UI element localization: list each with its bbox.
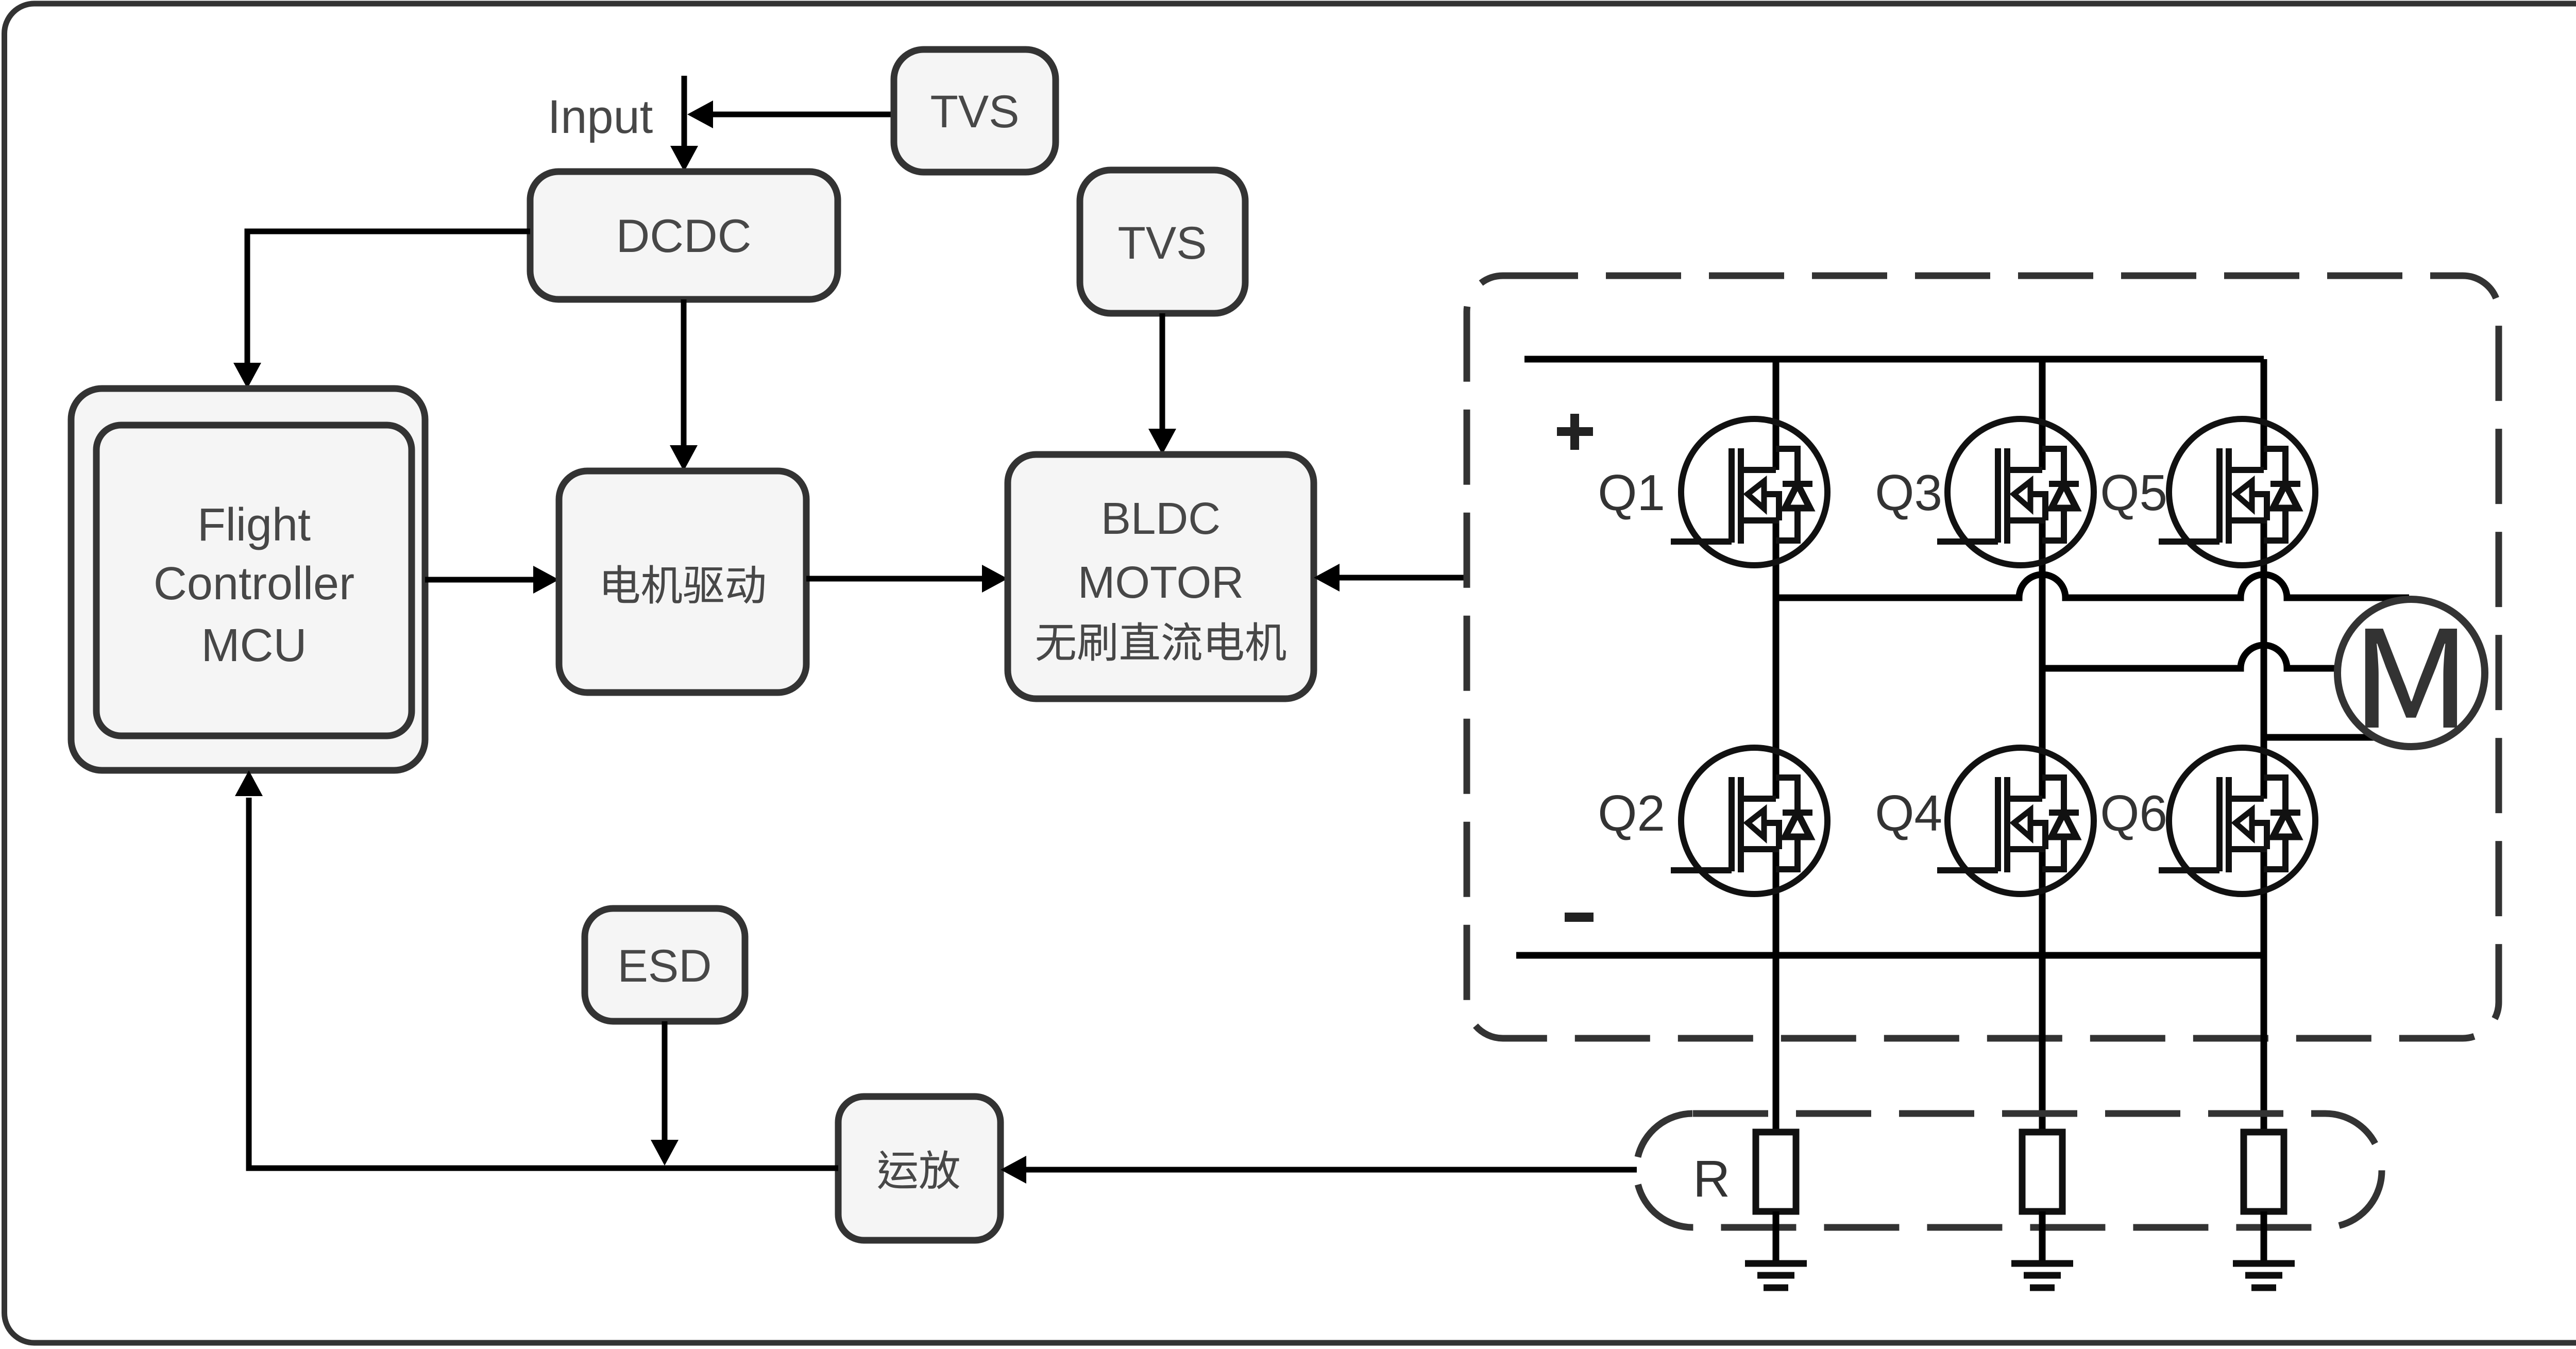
svg-text:Q3: Q3 [1875,464,1942,521]
motor drive block [559,471,806,693]
label yunfang opamp [878,1150,959,1189]
svg-text:BLDC: BLDC [1101,494,1221,544]
wire DCDC to MCU [247,231,530,366]
wire positive bus [1524,356,2264,363]
wire inverter to BLDC [1340,575,1466,581]
wire phase B to motor (hop over C) [2042,645,2340,668]
flight controller MCU outer [71,389,425,770]
op-amp block [838,1097,1001,1240]
ground B [2011,1263,2073,1288]
motor M [2337,599,2485,747]
flight controller MCU inner [96,425,412,736]
transistor Q3 [1937,419,2094,565]
DCDC converter [530,172,838,299]
wire phase C to motor [2264,734,2405,741]
wire phase A to motor (hops over B and C) [1776,575,2409,598]
resistor RA shunt [1756,1132,1796,1211]
ground A [1745,1263,1807,1288]
wire negative bus [1516,952,2264,959]
wire op-amp to MCU [249,798,838,1168]
svg-text:TVS: TVS [1117,217,1207,268]
wire Input to DCDC [682,76,687,149]
wire phase B vertical [2039,359,2046,1132]
wire DCDC to motor-drive [681,299,687,448]
wire RA to ground [1773,1211,1780,1261]
svg-text:ESD: ESD [618,940,712,991]
wire TVS to Input net [713,112,894,117]
transistor Q5 [2159,419,2315,565]
transistor Q2 [1671,748,1827,894]
svg-text:Input: Input [548,91,653,143]
svg-text:R: R [1693,1150,1730,1208]
resistor RB shunt [2022,1132,2062,1211]
BLDC motor block [1008,454,1314,699]
label wushua-zhiliu-dianji [1037,622,1286,661]
transistor Q6 [2159,748,2315,894]
wire RB to ground [2039,1211,2046,1261]
svg-text:Q6: Q6 [2100,785,2167,841]
wire motor-drive to BLDC [806,576,984,582]
ESD block [585,908,745,1021]
node minus [1565,913,1594,922]
resistor RC shunt [2244,1132,2284,1211]
TVS (input) [894,49,1056,172]
wire phase A vertical [1773,359,1780,1132]
shunt dashed enclosure R [1636,1114,2382,1227]
ground C [2233,1263,2295,1288]
wire ESD to sense net [662,1021,668,1143]
svg-text:Flight: Flight [197,499,311,551]
wire TVS to BLDC [1160,313,1165,432]
node plus [1557,414,1593,450]
svg-text:Q1: Q1 [1598,464,1665,521]
svg-text:Q5: Q5 [2100,464,2167,521]
wire R to op-amp [1025,1167,1637,1173]
svg-text:Controller: Controller [154,558,354,610]
svg-text:MOTOR: MOTOR [1078,558,1244,608]
TVS (motor) [1080,170,1245,313]
svg-text:Q2: Q2 [1598,785,1665,841]
svg-text:Q4: Q4 [1875,785,1942,841]
inverter dashed enclosure [1467,276,2499,1038]
svg-text:DCDC: DCDC [616,210,752,262]
wire phase C vertical [2261,359,2267,1132]
label dianji-qudong [604,565,764,603]
svg-text:TVS: TVS [930,86,1019,137]
transistor Q1 [1671,419,1827,565]
svg-text:MCU: MCU [201,620,307,671]
wire RC to ground [2261,1211,2267,1261]
transistor Q4 [1937,748,2094,894]
wire MCU to motor-drive [425,577,536,583]
